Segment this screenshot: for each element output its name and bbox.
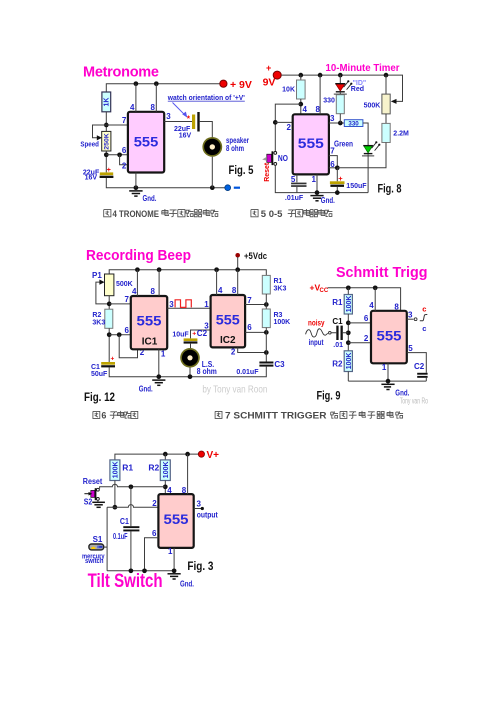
svg-text:1: 1 <box>382 363 387 372</box>
node pin8 top <box>318 73 323 78</box>
svg-text:c: c <box>422 324 426 333</box>
wiper arm P1 <box>96 282 109 304</box>
svg-text:100K: 100K <box>163 461 170 478</box>
svg-text:100K: 100K <box>274 319 291 326</box>
svg-text:8: 8 <box>232 286 237 295</box>
svg-text:IC1: IC1 <box>142 337 158 348</box>
wire pin 2 stub <box>275 121 292 123</box>
resistor R2 100K <box>164 454 166 460</box>
svg-text:7: 7 <box>247 296 252 305</box>
svg-text:250K: 250K <box>104 133 111 150</box>
svg-text:S2: S2 <box>84 498 93 507</box>
svg-text:150uF: 150uF <box>346 183 367 190</box>
svg-text:4: 4 <box>167 486 172 495</box>
resistor 330 horizontal <box>344 120 363 127</box>
svg-text:3: 3 <box>169 300 174 309</box>
node pin4 top <box>134 81 139 86</box>
svg-text:7 SCHMITT TRIGGER: 7 SCHMITT TRIGGER <box>225 411 327 421</box>
svg-text:S1: S1 <box>93 535 103 544</box>
wire P1 bottom <box>108 296 110 310</box>
wire pin 2 line (hops over C1) <box>107 505 158 508</box>
ground symbol S2 <box>97 501 99 502</box>
speaker L.S. 8 ohm <box>180 348 200 368</box>
svg-text:Speed: Speed <box>80 141 99 148</box>
wire pin 6 stub <box>348 322 371 324</box>
svg-text:4: 4 <box>369 301 374 310</box>
555 timer IC1 <box>131 296 167 349</box>
resistor 10K <box>300 75 302 80</box>
svg-text:555: 555 <box>164 512 190 527</box>
caption fig 6 <box>93 411 138 421</box>
svg-text:Fig. 12: Fig. 12 <box>84 390 115 404</box>
svg-text:4: 4 <box>303 105 308 114</box>
svg-text:1: 1 <box>168 547 173 556</box>
svg-text:2: 2 <box>152 499 157 508</box>
svg-text:6: 6 <box>122 146 127 155</box>
svg-text:.01: .01 <box>333 342 343 349</box>
svg-text:CC: CC <box>320 288 329 294</box>
svg-text:C1: C1 <box>332 317 343 326</box>
+9V supply terminal <box>220 80 227 87</box>
svg-text:Red: Red <box>351 86 364 93</box>
svg-text:IC2: IC2 <box>220 335 236 346</box>
node pin2 branch <box>117 152 122 157</box>
svg-text:+ 9V: + 9V <box>230 79 252 91</box>
wire ground rail <box>107 570 174 572</box>
svg-text:Recording Beep: Recording Beep <box>86 248 191 264</box>
svg-text:by Tony van Roon: by Tony van Roon <box>202 383 267 395</box>
node IC1 pin8 <box>157 267 162 272</box>
555 timer IC U2 <box>293 114 329 174</box>
svg-text:8: 8 <box>182 486 187 495</box>
ground symbol <box>129 191 142 196</box>
svg-text:8 ohm: 8 ohm <box>197 367 217 376</box>
svg-text:8: 8 <box>150 103 155 112</box>
LED red <box>339 75 341 84</box>
resistor R2 3K3 <box>105 309 113 328</box>
pin 2 IC2 <box>238 347 267 352</box>
wire top rail <box>109 270 266 276</box>
svg-text:2: 2 <box>364 334 369 343</box>
svg-text:3: 3 <box>408 311 413 320</box>
svg-text:555: 555 <box>377 328 403 343</box>
capacitor 22uF 16V (timing) <box>100 172 113 175</box>
caption fig 5 <box>251 209 333 220</box>
svg-text:C2: C2 <box>414 362 425 371</box>
node LED top <box>338 73 343 78</box>
svg-text:V+: V+ <box>207 450 220 461</box>
svg-text:.01uF: .01uF <box>285 195 304 202</box>
svg-text:7: 7 <box>125 295 130 304</box>
wire 1K bottom to cap <box>105 112 107 173</box>
svg-text:3: 3 <box>197 500 202 509</box>
noisy input squiggle <box>306 329 328 337</box>
svg-text:P1: P1 <box>92 271 102 280</box>
555 timer IC U5 <box>158 494 193 548</box>
svg-text:1: 1 <box>204 300 209 309</box>
node +5V entry <box>235 267 240 272</box>
wire pot wiper arm <box>93 125 107 138</box>
svg-text:R3: R3 <box>274 312 283 319</box>
svg-text:R2: R2 <box>92 312 101 319</box>
wire S2 to pin4 line (hops over R1) <box>100 484 166 488</box>
node pin8 top <box>154 81 159 86</box>
svg-text:switch: switch <box>85 558 104 565</box>
LED green <box>364 146 373 153</box>
pin 1 wire <box>135 173 137 188</box>
caption fig 7 <box>215 411 403 421</box>
minus terminal <box>225 185 231 191</box>
svg-text:Gnd.: Gnd. <box>139 385 153 394</box>
wire top rail <box>281 75 402 101</box>
svg-text:R2: R2 <box>332 360 343 369</box>
wire ground rail <box>348 380 426 382</box>
svg-text:330: 330 <box>348 120 359 127</box>
svg-text:3K3: 3K3 <box>274 285 287 292</box>
svg-text:input: input <box>309 338 324 347</box>
svg-text:6: 6 <box>101 411 106 421</box>
ground symbol <box>310 196 323 201</box>
svg-text:4 TRONOME: 4 TRONOME <box>113 209 160 220</box>
svg-text:7: 7 <box>122 116 127 125</box>
svg-text:c: c <box>422 305 426 314</box>
wire to green LED <box>363 123 368 146</box>
svg-text:+: + <box>111 355 115 362</box>
wire top rail <box>115 454 198 460</box>
ground symbol <box>168 574 181 579</box>
svg-text:Green: Green <box>334 140 353 149</box>
resistor R1 100K <box>347 288 349 295</box>
svg-text:10K: 10K <box>282 87 295 94</box>
svg-text:8: 8 <box>394 303 399 312</box>
svg-text:2: 2 <box>287 123 292 132</box>
svg-text:R2: R2 <box>148 462 159 472</box>
svg-text:555: 555 <box>137 314 163 329</box>
svg-text:0.1uF: 0.1uF <box>113 531 128 541</box>
svg-text:NO: NO <box>278 154 288 163</box>
wire R1 bottom <box>114 481 116 508</box>
svg-text:8: 8 <box>151 287 156 296</box>
pot wiper arrowhead <box>97 135 102 140</box>
555 timer IC U4 <box>371 311 407 364</box>
node speaker gnd <box>210 185 215 190</box>
svg-text:0.01uF: 0.01uF <box>236 369 259 376</box>
capacitor C1 .01 <box>336 326 338 340</box>
555 timer IC U1 <box>128 112 164 173</box>
wire branch to reset switch <box>275 104 301 151</box>
svg-text:100K: 100K <box>346 353 353 370</box>
wire S1 column <box>106 507 108 571</box>
wire pin6 stub <box>109 334 131 336</box>
resistor R2 100K <box>344 351 352 372</box>
svg-text:+: + <box>192 330 196 337</box>
wire top rail V+ <box>106 84 219 92</box>
node pot bottom <box>104 152 109 157</box>
node R2 bottom <box>107 332 112 337</box>
svg-text:16V: 16V <box>179 132 192 139</box>
potentiometer 250K Speed <box>102 131 111 151</box>
switch Reset NO pushbutton <box>274 152 277 155</box>
svg-text:5: 5 <box>291 175 296 184</box>
svg-text:output: output <box>197 510 218 519</box>
svg-text:500K: 500K <box>116 281 133 288</box>
555 timer IC2 <box>211 295 246 347</box>
wire pot bottom to pin6 <box>106 154 128 156</box>
svg-text:1: 1 <box>312 175 317 184</box>
node R1 top <box>346 285 351 290</box>
capacitor .01uF <box>291 183 306 185</box>
svg-text:50uF: 50uF <box>91 371 108 378</box>
svg-text:Metronome: Metronome <box>83 65 159 81</box>
node 500K top <box>384 73 389 78</box>
node pin8 top <box>185 452 190 457</box>
resistor 1K <box>102 92 111 112</box>
svg-text:Reset: Reset <box>83 477 103 486</box>
capacitor C3 0.01uF <box>259 362 273 364</box>
switch S2 <box>97 488 100 491</box>
svg-text:2: 2 <box>231 348 236 357</box>
wire switch to ground rail <box>275 166 368 193</box>
svg-text:330: 330 <box>323 98 335 105</box>
speaker 8 ohm <box>202 137 222 157</box>
svg-text:Gnd.: Gnd. <box>143 194 157 203</box>
node pin2 branch <box>117 332 122 337</box>
node 10K top <box>298 73 303 78</box>
svg-text:2: 2 <box>122 162 127 171</box>
svg-text:5 0-5: 5 0-5 <box>261 209 283 220</box>
svg-text:100K: 100K <box>346 296 353 313</box>
svg-text:4: 4 <box>132 287 137 296</box>
node IC1 pin4 <box>135 267 140 272</box>
svg-text:8 ohm: 8 ohm <box>226 144 244 153</box>
capacitor 150uF <box>336 168 338 182</box>
node pin7/left column <box>104 123 109 128</box>
node pin1 gnd <box>134 185 139 190</box>
wire cap to speaker <box>200 122 213 138</box>
wire to pin 2 <box>120 155 128 165</box>
svg-text:4: 4 <box>130 103 135 112</box>
svg-text:R1: R1 <box>122 462 133 472</box>
svg-text:6: 6 <box>125 326 130 335</box>
svg-text:Schmitt Trigger: Schmitt Trigger <box>336 264 441 281</box>
wire R1 to R2 node column <box>347 314 349 351</box>
potentiometer 500K <box>385 75 387 94</box>
svg-text:C1: C1 <box>91 364 100 371</box>
resistor R3 100K <box>262 309 270 328</box>
svg-text:C1: C1 <box>120 516 129 526</box>
svg-text:Gnd.: Gnd. <box>180 579 194 588</box>
capacitor C1 50uF <box>101 362 115 365</box>
svg-text:Reset: Reset <box>262 162 271 181</box>
svg-text:noisy: noisy <box>308 318 325 327</box>
svg-text:+: + <box>338 174 343 183</box>
ground symbol <box>152 380 165 385</box>
capacitor 22uF 16V output coupling <box>192 115 195 130</box>
svg-text:555: 555 <box>298 136 325 151</box>
svg-text:Fig. 8: Fig. 8 <box>378 181 402 195</box>
node R2 top <box>163 452 168 457</box>
svg-text:Gnd.: Gnd. <box>321 196 335 205</box>
svg-text:Fig. 9: Fig. 9 <box>317 389 341 403</box>
capacitor C2 10uF <box>191 330 211 338</box>
svg-text:6: 6 <box>152 529 157 538</box>
svg-text:+: + <box>266 63 271 73</box>
svg-text:+5Vdc: +5Vdc <box>244 251 267 262</box>
svg-text:R1: R1 <box>332 298 343 307</box>
svg-text:Fig. 3: Fig. 3 <box>187 559 213 573</box>
svg-text:555: 555 <box>216 313 241 328</box>
resistor 2.2M <box>385 114 387 124</box>
caption fig 4 <box>104 209 219 220</box>
node IC2 pin4 <box>214 267 219 272</box>
wire C1 to rail <box>109 367 266 377</box>
svg-text:6: 6 <box>247 323 252 332</box>
wire pin 7 stub <box>106 124 128 126</box>
svg-text:3K3: 3K3 <box>92 320 105 327</box>
svg-text:1K: 1K <box>104 98 111 107</box>
wire C2 to speaker <box>190 344 192 349</box>
clean output step symbol <box>420 314 427 320</box>
svg-text:watch orientation of '+V': watch orientation of '+V' <box>167 93 245 102</box>
wire pin 2 stub <box>348 342 371 344</box>
wire cap to ground rail <box>106 178 224 188</box>
node below 10K <box>298 102 303 107</box>
wire green LED cathode to rail <box>367 154 369 192</box>
svg-text:C3: C3 <box>274 360 285 369</box>
svg-text:3: 3 <box>204 322 209 331</box>
svg-text:4: 4 <box>218 286 223 295</box>
svg-text:Tilt Switch: Tilt Switch <box>88 571 163 592</box>
square wave symbol <box>175 300 191 308</box>
svg-text:Tony van Roon: Tony van Roon <box>400 397 434 406</box>
wire to pin 2 (bottom) <box>119 335 137 358</box>
svg-text:10-Minute Timer: 10-Minute Timer <box>326 63 400 74</box>
svg-text:500K: 500K <box>364 102 381 109</box>
svg-text:6: 6 <box>364 314 369 323</box>
svg-text:2.2M: 2.2M <box>393 130 409 137</box>
ground symbol <box>381 384 394 389</box>
svg-text:3: 3 <box>330 114 335 123</box>
svg-text:R1: R1 <box>274 278 283 285</box>
svg-text:555: 555 <box>134 134 159 149</box>
svg-text:10uF: 10uF <box>172 331 189 338</box>
svg-text:1: 1 <box>161 350 166 359</box>
svg-text:+: + <box>107 167 111 174</box>
+5Vdc supply <box>235 253 240 258</box>
svg-text:100K: 100K <box>113 461 120 478</box>
svg-text:Fig. 5: Fig. 5 <box>229 163 254 177</box>
wire top rail <box>328 288 401 311</box>
svg-text:16V: 16V <box>85 175 98 182</box>
resistor 330 vertical <box>339 92 341 95</box>
V+ terminal <box>198 451 204 457</box>
wire R2 bottom / pin 4 <box>164 481 166 495</box>
svg-text:3: 3 <box>166 112 171 121</box>
node pin4 top <box>373 285 378 290</box>
svg-text:5: 5 <box>408 344 413 353</box>
node pin2 junction <box>273 120 278 125</box>
node C1 top <box>129 484 134 489</box>
resistor R1 100K <box>110 460 120 481</box>
svg-text:9V: 9V <box>263 76 276 88</box>
resistor R1 3K3 <box>262 275 270 294</box>
capacitor C1 0.1uF <box>130 487 132 571</box>
